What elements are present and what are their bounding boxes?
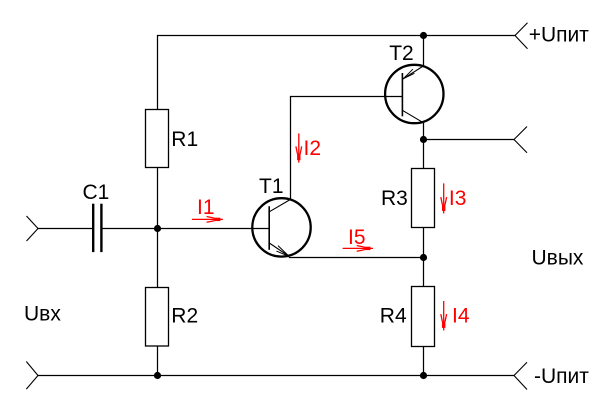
wire R1 bottom to input node (157, 168, 159, 229)
wire -Upit bottom rail (38, 375, 515, 377)
wire output node to R3 (423, 140, 425, 169)
wire R3 bottom to node (423, 228, 425, 258)
wire R2 bottom (157, 346, 159, 376)
wire T1 emitter to node (289, 257, 424, 259)
capacitor C1 (93, 204, 101, 252)
svg-text:T1: T1 (259, 175, 284, 198)
svg-text:I4: I4 (452, 305, 470, 328)
wire input node to R2 (157, 229, 159, 288)
svg-text:R1: R1 (171, 128, 198, 151)
current arrow I3 (441, 183, 447, 213)
wire T2 collector to output node (423, 123, 425, 140)
junction bottom rail R2 (154, 372, 161, 379)
svg-text:I5: I5 (348, 226, 366, 249)
svg-text:I2: I2 (304, 137, 322, 160)
svg-text:T2: T2 (389, 42, 414, 65)
junction input node C1/R1/R2/T1 (154, 225, 161, 232)
wire T1 collector up and over to T2 base (291, 97, 403, 200)
svg-text:C1: C1 (83, 181, 110, 204)
svg-text:+Uпит: +Uпит (529, 24, 590, 47)
svg-text:Uвых: Uвых (532, 247, 584, 270)
wire C1 to T1 base (102, 228, 269, 230)
transistor T1 (252, 198, 310, 256)
wire input terminal to C1 (38, 228, 92, 230)
svg-text:R3: R3 (381, 187, 408, 210)
resistor R4 (412, 287, 435, 347)
junction bottom rail R4 (420, 372, 427, 379)
wire T2 emitter up to rail (423, 36, 425, 67)
junction output node T2/R3 (420, 136, 427, 143)
resistor R2 (146, 288, 169, 347)
current arrow I2 (296, 133, 302, 162)
svg-text:R4: R4 (380, 304, 407, 327)
junction node at top rail / T2 emitter (420, 32, 427, 39)
current arrow I5 (343, 246, 373, 252)
wire node to R4 (423, 258, 425, 287)
current arrow I4 (441, 301, 447, 330)
terminal output (514, 127, 527, 153)
terminal input left (27, 216, 39, 241)
terminal bottom-left (26, 362, 38, 390)
svg-text:Uвх: Uвх (24, 302, 61, 325)
wire +Upit top rail with R1 drop (158, 36, 516, 110)
svg-text:I3: I3 (449, 187, 467, 210)
current arrow I1 (192, 217, 223, 223)
svg-text:I1: I1 (197, 196, 215, 219)
resistor R1 (146, 110, 169, 168)
svg-text:-Uпит: -Uпит (534, 365, 589, 388)
wire output node to terminal (424, 139, 515, 141)
resistor R3 (412, 169, 435, 228)
wire R4 bottom (423, 347, 425, 376)
svg-text:R2: R2 (171, 305, 198, 328)
terminal -Upit (514, 362, 527, 389)
junction node T1 emitter R3/R4 (420, 254, 427, 261)
terminal +Upit (515, 23, 528, 49)
transistor T2 (385, 65, 443, 123)
